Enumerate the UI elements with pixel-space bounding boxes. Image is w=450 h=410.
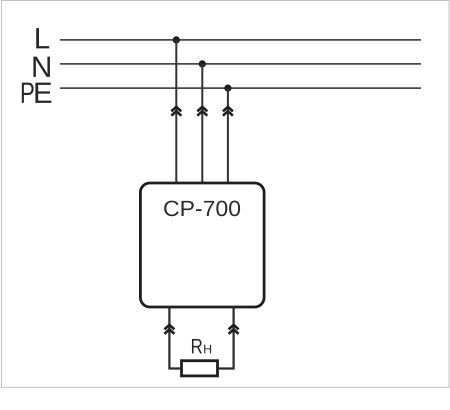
wire CP-700 left output to resistor bbox=[169, 306, 180, 369]
plug connector symbol on L wire bbox=[171, 107, 181, 116]
junction dot on N bbox=[199, 60, 206, 67]
wire PE to CP-700 bbox=[227, 88, 229, 183]
wire L to CP-700 bbox=[175, 40, 177, 183]
label RH bbox=[192, 339, 211, 353]
plug connector symbol on right output wire bbox=[229, 325, 239, 334]
junction dot on L bbox=[173, 36, 180, 43]
plug connector symbol on PE wire bbox=[223, 107, 233, 116]
wire: protective earth line PE bbox=[60, 87, 421, 89]
net label PE bbox=[22, 83, 34, 103]
device CP-700 surge protector box bbox=[140, 183, 264, 307]
net label L bbox=[36, 28, 49, 48]
junction dot on PE bbox=[224, 85, 231, 92]
wire CP-700 right output to resistor bbox=[219, 306, 234, 369]
wire: phase line L bbox=[60, 39, 421, 41]
net label N bbox=[33, 57, 49, 77]
plug connector symbol on left output wire bbox=[164, 325, 174, 334]
plug connector symbol on N wire bbox=[197, 107, 207, 116]
wire: neutral line N bbox=[60, 63, 421, 65]
resistor RH (load) bbox=[182, 361, 218, 376]
wire N to CP-700 bbox=[201, 64, 203, 183]
label CP-700 bbox=[164, 201, 240, 217]
